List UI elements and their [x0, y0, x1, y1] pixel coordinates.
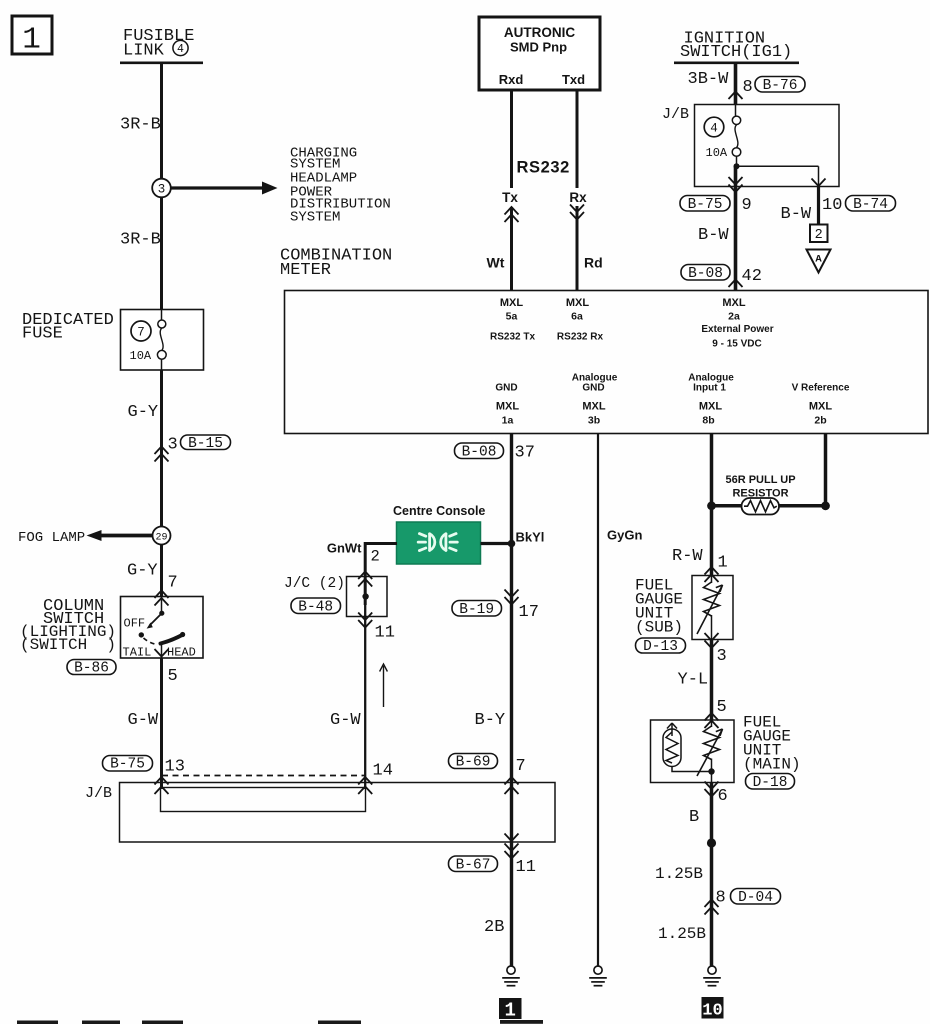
svg-text:A: A — [815, 254, 822, 266]
bottom crop bar b — [82, 1021, 120, 1024]
svg-text:HEAD: HEAD — [167, 646, 196, 660]
chevrons below J/C — [358, 613, 372, 628]
svg-text:10: 10 — [702, 1002, 722, 1021]
svg-text:1a: 1a — [502, 414, 514, 426]
pin MXL 6a RS232 Rx — [557, 297, 604, 342]
label 56R PULL UP RESISTOR — [725, 474, 795, 500]
svg-text:TAIL: TAIL — [123, 646, 152, 660]
svg-text:1: 1 — [504, 1000, 515, 1022]
svg-text:2b: 2b — [814, 414, 826, 426]
switch contacts OFF TAIL HEAD — [123, 597, 196, 660]
svg-text:B-15: B-15 — [188, 436, 223, 452]
chevrons below sub — [705, 633, 719, 648]
connector D-13 — [636, 638, 686, 655]
wire GnWt corner to green box — [365, 544, 397, 606]
svg-text:MXL: MXL — [699, 400, 723, 412]
svg-text:4: 4 — [710, 122, 718, 136]
chevrons below J/B — [505, 844, 519, 859]
chevron B-Y wire — [505, 777, 519, 785]
svg-text:1: 1 — [22, 23, 41, 58]
svg-text:FOG LAMP: FOG LAMP — [18, 530, 85, 546]
node 3 — [152, 179, 171, 198]
J/B fuse box upper — [695, 105, 840, 187]
connector B-08 — [681, 265, 730, 282]
svg-text:5a: 5a — [506, 311, 518, 323]
junction dot in J/C — [362, 593, 368, 599]
svg-text:1.25B: 1.25B — [655, 865, 703, 883]
svg-text:Tx: Tx — [502, 190, 518, 205]
svg-text:10A: 10A — [130, 349, 152, 363]
svg-text:56R PULL UP: 56R PULL UP — [725, 474, 795, 486]
chevron on wire — [729, 280, 743, 288]
chevrons on wire — [155, 447, 169, 462]
wire sub to main gauge — [710, 640, 714, 721]
svg-text:B-48: B-48 — [298, 599, 333, 615]
svg-text:METER: METER — [280, 261, 331, 280]
wire pull up resistor horizontal — [712, 504, 826, 508]
svg-text:B-75: B-75 — [110, 757, 145, 773]
svg-text:FUSE: FUSE — [22, 324, 63, 343]
svg-text:8b: 8b — [702, 414, 714, 426]
label FUSIBLE LINK 4 — [120, 27, 203, 63]
svg-text:13: 13 — [165, 758, 185, 777]
wire Txd to meter — [576, 91, 579, 189]
svg-text:7: 7 — [168, 573, 178, 592]
svg-text:External Power: External Power — [701, 324, 773, 335]
svg-text:3B-W: 3B-W — [688, 70, 730, 89]
connector B-67 — [449, 856, 498, 873]
svg-text:AUTRONIC: AUTRONIC — [504, 25, 575, 40]
svg-text:5: 5 — [168, 667, 178, 686]
circled 7 — [131, 321, 151, 341]
svg-text:B-74: B-74 — [853, 197, 888, 213]
chevrons below main — [705, 782, 719, 797]
svg-text:R-W: R-W — [672, 547, 703, 566]
svg-text:G-W: G-W — [128, 711, 159, 730]
svg-text:SYSTEM: SYSTEM — [290, 209, 340, 225]
bottom crop bar c — [142, 1021, 183, 1024]
chevrons Rx wire — [570, 205, 584, 220]
svg-text:GyGn: GyGn — [607, 528, 642, 543]
svg-text:G-Y: G-Y — [128, 403, 159, 422]
label COMBINATION METER — [280, 247, 392, 280]
svg-text:D-13: D-13 — [643, 639, 678, 655]
centre console illumination lamp green box — [397, 522, 481, 564]
svg-text:11: 11 — [375, 624, 395, 643]
bottom crop bar a — [17, 1021, 58, 1024]
connector B-69 — [449, 754, 498, 771]
svg-text:B-08: B-08 — [688, 266, 723, 282]
connector B-75 — [103, 756, 153, 773]
ground ref box 10 — [702, 997, 724, 1021]
pin Analogue Input 1 MXL 8b — [688, 373, 734, 427]
label COLUMN SWITCH (LIGHTING SWITCH) — [20, 597, 116, 654]
wire fusible link to dedicated fuse — [160, 63, 163, 310]
ground ref box 1 — [499, 998, 522, 1022]
svg-text:MXL: MXL — [722, 297, 746, 309]
resistor 56R symbol — [742, 498, 780, 515]
fuel gauge unit main box — [651, 720, 735, 783]
fuse 7 10A symbol — [157, 310, 166, 370]
svg-text:10A: 10A — [706, 146, 728, 160]
ground GND wire — [502, 966, 520, 986]
svg-text:D-04: D-04 — [738, 890, 773, 906]
svg-text:MXL: MXL — [809, 400, 833, 412]
label FUEL GAUGE UNIT (SUB) — [635, 576, 683, 636]
svg-text:14: 14 — [373, 762, 393, 781]
junction in J/B — [734, 163, 740, 169]
connector B-76 — [755, 77, 805, 94]
connector B-86 — [67, 660, 116, 677]
connector B-74 — [846, 196, 896, 213]
svg-text:Rx: Rx — [569, 190, 587, 205]
dashed wire 13 to 14 — [162, 775, 365, 777]
svg-text:3R-B: 3R-B — [120, 115, 161, 134]
svg-text:G-W: G-W — [330, 711, 361, 730]
chevrons main at J/B bottom — [729, 177, 743, 192]
svg-text:SWITCH(IG1): SWITCH(IG1) — [680, 43, 792, 62]
junction dot B — [707, 838, 716, 847]
svg-text:9: 9 — [742, 196, 752, 215]
branch wire inside J/B — [737, 166, 819, 187]
junction dot right — [821, 501, 830, 510]
svg-text:(SUB): (SUB) — [635, 618, 683, 636]
svg-text:Wt: Wt — [487, 254, 505, 270]
pin V Reference MXL 2b — [792, 383, 850, 427]
chevrons above main — [705, 713, 719, 728]
wire dedicated fuse to column switch — [160, 370, 163, 597]
wire column switch to J/B — [160, 659, 163, 790]
chevron on wire — [729, 92, 743, 100]
svg-text:MXL: MXL — [566, 297, 590, 309]
combination meter box — [285, 291, 929, 434]
svg-text:Txd: Txd — [562, 72, 585, 87]
svg-text:8: 8 — [743, 78, 753, 97]
annotation arrow up — [380, 664, 388, 707]
svg-text:B-67: B-67 — [456, 857, 491, 873]
connector B-19 — [452, 601, 502, 618]
svg-text:Centre Console: Centre Console — [393, 504, 485, 518]
junction dot BkYl — [508, 540, 516, 548]
J/B junction block lower box — [120, 783, 556, 843]
svg-text:MXL: MXL — [582, 400, 606, 412]
pin GND MXL 1a — [495, 383, 519, 427]
svg-text:2B: 2B — [484, 918, 504, 937]
svg-text:11: 11 — [516, 858, 536, 877]
svg-text:2: 2 — [371, 547, 380, 565]
svg-text:1.25B: 1.25B — [658, 925, 706, 943]
J/B internal bus rect — [161, 788, 366, 812]
chevrons on wire — [705, 567, 719, 582]
svg-text:3: 3 — [158, 183, 166, 197]
svg-text:6a: 6a — [571, 311, 583, 323]
arrow to fog lamp — [87, 530, 153, 541]
connector B-75 — [680, 196, 730, 213]
svg-text:3b: 3b — [588, 414, 600, 426]
chevron branch — [812, 179, 826, 187]
svg-text:B-76: B-76 — [763, 78, 798, 94]
svg-text:B: B — [689, 808, 699, 827]
svg-text:Rxd: Rxd — [499, 72, 524, 87]
wire through J/C — [364, 577, 366, 790]
svg-text:B-W: B-W — [698, 226, 729, 245]
svg-text:7: 7 — [137, 326, 145, 340]
connector B-08 — [455, 443, 504, 460]
wire Analogue GND 3b down — [597, 434, 599, 967]
chevrons GnWt wire — [358, 572, 372, 587]
chevron on wire 14 — [358, 777, 372, 785]
connector B-15 — [181, 435, 231, 452]
svg-text:6: 6 — [718, 787, 728, 806]
svg-text:37: 37 — [515, 443, 535, 462]
svg-text:MXL: MXL — [496, 400, 520, 412]
svg-text:J/B: J/B — [662, 106, 689, 123]
label DEDICATED FUSE — [22, 311, 114, 343]
wire green box to GND wire — [481, 542, 514, 545]
svg-text:B-Y: B-Y — [475, 711, 506, 730]
chevrons on wire — [155, 591, 169, 606]
svg-text:RS232 Rx: RS232 Rx — [557, 331, 604, 342]
svg-text:Rd: Rd — [584, 254, 603, 270]
svg-text:(SWITCH ): (SWITCH ) — [20, 636, 116, 654]
ground analogue GND wire — [589, 966, 607, 986]
svg-text:BkYl: BkYl — [516, 529, 545, 544]
svg-text:GND: GND — [495, 383, 517, 394]
chevrons on wire — [705, 900, 719, 915]
svg-text:3: 3 — [717, 647, 727, 666]
connector box 2 — [810, 225, 828, 243]
svg-text:V Reference: V Reference — [792, 383, 850, 394]
chevrons GND wire — [505, 590, 519, 605]
svg-text:B-86: B-86 — [74, 660, 109, 676]
variable resistor sub — [697, 576, 723, 640]
wire GND 1a down — [510, 434, 513, 967]
circled 4 — [704, 117, 724, 137]
svg-text:Y-L: Y-L — [678, 670, 709, 689]
svg-text:42: 42 — [742, 267, 762, 286]
variable resistor main — [697, 720, 723, 783]
ground fuel gauge wire — [703, 966, 721, 986]
svg-text:RS232 Tx: RS232 Tx — [490, 331, 535, 342]
svg-text:(MAIN): (MAIN) — [743, 755, 801, 773]
pin Analogue GND MXL 3b — [572, 373, 618, 427]
heater element in main — [663, 723, 712, 772]
wire branch to connector 2 — [817, 187, 820, 225]
svg-text:17: 17 — [519, 603, 539, 622]
lamp icon — [418, 534, 457, 551]
svg-text:9 - 15 VDC: 9 - 15 VDC — [712, 338, 761, 349]
arrow to charging system — [171, 182, 278, 195]
svg-text:RS232: RS232 — [517, 159, 570, 177]
svg-text:2: 2 — [815, 228, 823, 243]
svg-text:7: 7 — [516, 757, 526, 776]
label charging system headlamp power distribution system — [290, 145, 391, 225]
svg-text:J/B: J/B — [85, 785, 112, 802]
svg-text:B-19: B-19 — [459, 602, 494, 618]
junction dot main — [708, 768, 714, 774]
svg-text:SMD Pnp: SMD Pnp — [510, 39, 567, 54]
svg-text:OFF: OFF — [124, 616, 146, 630]
label IGNITION SWITCH(IG1) — [674, 30, 799, 63]
svg-text:29: 29 — [155, 532, 167, 543]
chevron wire 13 into J/B — [155, 787, 169, 795]
svg-text:1: 1 — [718, 554, 728, 573]
node 29 fog lamp tap — [153, 527, 171, 545]
svg-text:D-18: D-18 — [753, 775, 788, 791]
wire V Reference 2b down — [824, 434, 828, 508]
wire ignition to J/B — [734, 63, 738, 105]
fuel gauge unit sub box — [692, 576, 733, 640]
fuse 4 10A symbol — [732, 105, 741, 167]
dedicated fuse box — [121, 310, 204, 371]
svg-text:5: 5 — [717, 698, 727, 717]
chevron on wire — [155, 777, 169, 785]
svg-text:3: 3 — [168, 435, 178, 454]
pin MXL 2a External Power 9 - 15 VDC — [701, 297, 773, 349]
svg-text:MXL: MXL — [500, 297, 524, 309]
svg-text:B-75: B-75 — [688, 197, 723, 213]
wire main below fuse — [734, 166, 738, 290]
chevron wire out J/B bottom — [505, 834, 519, 842]
chevron wire 7 into J/B — [505, 787, 519, 795]
label FUEL GAUGE UNIT (MAIN) — [743, 713, 801, 773]
wire main gauge to ground — [710, 783, 714, 967]
svg-text:G-Y: G-Y — [127, 562, 158, 581]
ECU AUTRONIC SMD Pnp box — [479, 17, 600, 90]
chevrons Tx wire — [505, 207, 519, 222]
svg-text:B-69: B-69 — [456, 755, 491, 771]
svg-text:GnWt: GnWt — [327, 541, 362, 556]
junction connector J/C (2) box — [347, 577, 388, 617]
page number box 1 — [12, 16, 52, 58]
node A triangle — [807, 250, 831, 273]
connector D-18 — [746, 774, 795, 791]
wire Analogue Input 8b down — [710, 434, 714, 577]
wire Rxd to meter — [510, 91, 513, 189]
bottom crop bar d — [318, 1021, 361, 1024]
bottom crop bar e — [500, 1020, 543, 1024]
svg-text:4: 4 — [177, 43, 184, 56]
connector B-48 — [291, 598, 341, 615]
svg-text:B-08: B-08 — [462, 444, 497, 460]
chevron wire 14 into J/B — [358, 787, 372, 795]
column switch box — [121, 597, 204, 659]
pin MXL 5a RS232 Tx — [490, 297, 535, 342]
svg-text:B-W: B-W — [781, 205, 812, 224]
svg-text:2a: 2a — [728, 311, 740, 323]
svg-text:GND: GND — [582, 383, 604, 394]
svg-text:10: 10 — [822, 196, 842, 215]
junction dot left — [707, 501, 716, 510]
connector D-04 — [731, 889, 781, 906]
svg-text:3R-B: 3R-B — [120, 230, 161, 249]
svg-text:Input 1: Input 1 — [693, 383, 726, 394]
svg-text:J/C (2): J/C (2) — [284, 576, 345, 592]
svg-text:LINK: LINK — [123, 42, 165, 61]
